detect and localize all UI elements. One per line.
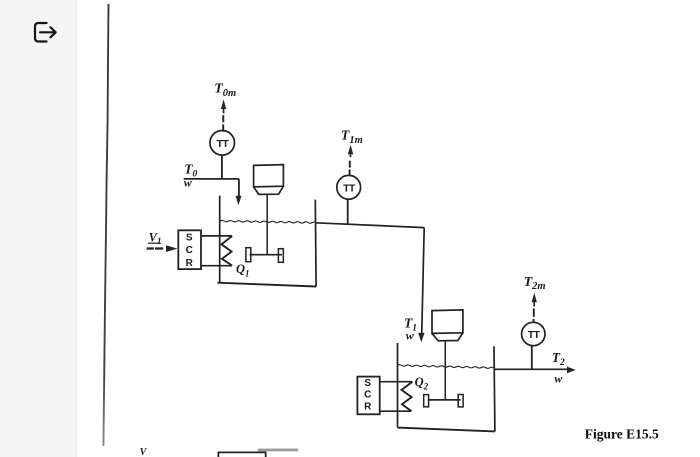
SCR2 bottom wire [380, 410, 412, 412]
SCR box 1 [178, 230, 201, 269]
svg-text:C: C [186, 245, 193, 256]
svg-text:TT: TT [217, 138, 230, 150]
svg-text:T2: T2 [552, 350, 565, 368]
svg-text:TT: TT [528, 329, 541, 341]
svg-text:TT: TT [343, 182, 356, 194]
stirrer shaft 1 [266, 194, 268, 254]
label T1m [341, 128, 363, 145]
svg-text:w: w [406, 328, 415, 342]
tank2 inlet arrowhead down [418, 333, 424, 342]
inlet flow line into tank 1 [184, 178, 239, 180]
label T2 over w [552, 350, 565, 385]
SCR2 top wire [380, 381, 413, 383]
svg-text:T2m: T2m [524, 275, 546, 292]
svg-text:R: R [186, 258, 194, 269]
tank 2 liquid surface (wavy) [397, 365, 494, 369]
svg-text:T1m: T1m [341, 128, 363, 145]
stirrer crossbar 1 [250, 254, 282, 256]
partial box (next figure) [218, 452, 265, 457]
temperature transmitter TT (T2m) [522, 322, 545, 345]
downcomer wire to tank 2 [422, 228, 425, 335]
TT (T1m) stem wire [347, 199, 349, 224]
tank 1 left wall [219, 196, 221, 283]
dashed V1 signal wire [147, 247, 164, 249]
stirrer shaft 2 [444, 341, 446, 400]
stirrer motor 2 [432, 310, 463, 334]
dashed signal line to T2m [533, 308, 535, 322]
SCR box 2 [357, 377, 379, 415]
TT (T2m) stem wire [531, 346, 533, 370]
V1 arrowhead right [166, 245, 178, 252]
dashed signal line to T1m [349, 161, 351, 176]
svg-text:Q2: Q2 [415, 375, 429, 391]
svg-text:C: C [364, 390, 371, 401]
svg-text:S: S [186, 232, 193, 243]
svg-text:Figure E15.5: Figure E15.5 [585, 426, 659, 441]
tank 2 left wall [397, 343, 399, 428]
label T1 over w [404, 315, 417, 342]
arrowhead up to T0m [221, 99, 226, 113]
temperature transmitter TT (T1m) [337, 175, 361, 199]
tank 1 right wall [314, 200, 317, 287]
tank 1 liquid surface (wavy) [220, 220, 317, 223]
outlet line tank1 to tank2 [316, 223, 424, 228]
arrowhead up to T2m [532, 293, 537, 307]
outflow line T2 [494, 368, 567, 370]
SCR1 bottom wire [201, 265, 232, 267]
logout/export icon [0, 0, 77, 70]
SCR1 top wire [201, 235, 232, 237]
stirrer right paddle 2 [458, 395, 463, 407]
V1 underline [148, 242, 161, 244]
tank 2 bottom [398, 428, 495, 432]
stirrer crossbar 2 [428, 399, 461, 401]
label V1 [149, 230, 162, 246]
tank 1 bottom [217, 283, 316, 287]
outflow arrowhead right [567, 367, 576, 374]
inlet arrowhead down [236, 196, 242, 206]
sidebar panel [0, 0, 77, 457]
svg-text:S: S [364, 378, 371, 389]
svg-text:Q1: Q1 [236, 262, 250, 278]
heater coil Q1 [222, 236, 233, 266]
temperature transmitter TT (T0m) [210, 131, 235, 156]
tank 2 right wall [493, 346, 496, 431]
label T2m [524, 275, 546, 292]
inlet drop wire [238, 179, 240, 197]
TT (T0m) stem wire [221, 155, 223, 179]
stirrer left paddle 2 [424, 395, 429, 407]
svg-text:w: w [184, 176, 193, 190]
svg-text:V: V [140, 447, 148, 457]
svg-text:w: w [554, 372, 563, 386]
svg-text:R: R [364, 402, 372, 413]
scanned page left edge [103, 4, 108, 446]
arrowhead up to T1m [348, 145, 353, 158]
stirrer right paddle 1 [278, 249, 283, 263]
label T0m [214, 82, 236, 99]
label T0 over w [184, 162, 198, 190]
stirrer left paddle 1 [246, 248, 251, 262]
gray highlight bar [258, 449, 299, 452]
svg-text:T0m: T0m [214, 82, 236, 99]
dashed signal line to T0m [222, 115, 224, 132]
heater coil Q2 [402, 382, 413, 411]
stirrer motor 1 [254, 165, 284, 187]
